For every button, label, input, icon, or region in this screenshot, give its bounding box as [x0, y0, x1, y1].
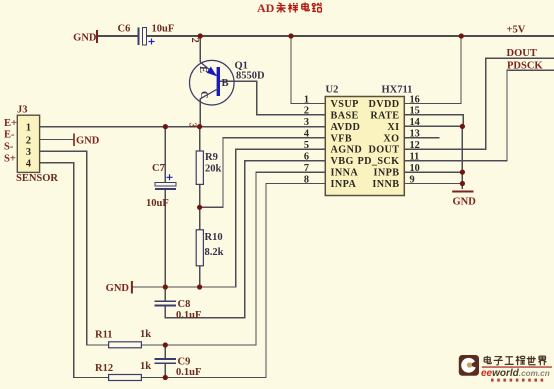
svg-text:S+: S+ [4, 154, 16, 165]
wire INPB (U2 pin10) to GND column [404, 171, 462, 173]
svg-text:3: 3 [26, 147, 31, 158]
capacitor C6 plus sign [149, 39, 155, 45]
logo hanzi 工 [505, 357, 514, 365]
logo hanzi 程 [516, 356, 525, 366]
junction dot GND row / C7 / C8 [163, 284, 168, 289]
title hanzi 路 [312, 3, 322, 12]
svg-text:XI: XI [387, 122, 399, 133]
svg-text:1k: 1k [140, 361, 151, 372]
wire VFB U2 pin4 to R9/R10 node [200, 138, 326, 208]
logo red underline [482, 366, 552, 367]
wire Q1 base to U2 pin2 [220, 81, 325, 115]
svg-text:3: 3 [304, 117, 309, 128]
svg-text:C: C [198, 91, 209, 99]
wire GND row to AGND (U2 pin5) [132, 149, 325, 287]
svg-text:20k: 20k [205, 164, 222, 175]
svg-text:INNB: INNB [372, 179, 399, 190]
wire XO stub (U2 pin13) [404, 137, 439, 139]
svg-text:INPB: INPB [374, 168, 400, 179]
wire R10 top lead [199, 207, 201, 230]
connector J3 body [17, 115, 39, 172]
svg-text:E+: E+ [4, 118, 17, 129]
wire R10 bottom lead [199, 266, 201, 287]
svg-text:2: 2 [189, 38, 200, 43]
junction dot rail/DVDD [459, 33, 464, 38]
svg-text:15: 15 [410, 106, 420, 117]
svg-text:R9: R9 [205, 152, 218, 163]
resistor R12 body [109, 375, 142, 381]
svg-text:INNA: INNA [331, 168, 359, 179]
wire R9 bottom lead [199, 184, 201, 207]
svg-text:E-: E- [4, 130, 15, 141]
title hanzi 电 [302, 3, 310, 11]
transistor Q1 body circle [190, 60, 235, 105]
svg-text:14: 14 [410, 117, 420, 128]
junction dot R12 row / C9 bottom [163, 375, 168, 380]
junction dot E+ row / C7 [163, 124, 168, 129]
svg-text:R12: R12 [95, 363, 113, 374]
logo slogan tiny red marks [491, 379, 543, 382]
junction dot R11 row / C9 top [163, 342, 168, 347]
logo hanzi 世 [527, 356, 536, 365]
transistor Q1 base bar [217, 67, 220, 96]
wire C8 bottom to VBG (U2 pin6) [165, 161, 325, 318]
svg-text:10uF: 10uF [152, 24, 175, 35]
wire R12 row to INPA (U2 pin8) [141, 184, 325, 378]
ground GND bar mid-left [131, 281, 133, 294]
logo eeworld gold dot [467, 362, 472, 367]
svg-text:8: 8 [304, 174, 309, 185]
svg-text:GND: GND [76, 136, 100, 147]
svg-text:1: 1 [26, 122, 31, 133]
svg-text:VFB: VFB [331, 133, 353, 144]
wire C7 top lead [164, 127, 166, 183]
junction dot XI / RATE / GND column [460, 124, 465, 129]
svg-text:HX711: HX711 [382, 85, 413, 96]
logo eeworld white C [461, 358, 476, 373]
svg-text:AVDD: AVDD [331, 122, 361, 133]
svg-text:PD_SCK: PD_SCK [357, 156, 399, 167]
wire J3 pin4 S+ to R12 [40, 163, 109, 378]
title hanzi 采 [277, 3, 286, 13]
svg-text:6: 6 [304, 152, 309, 163]
wire Q1 emitter vertical [199, 36, 201, 62]
wire DOUT net (U2 pin12 to right edge) [404, 58, 554, 149]
svg-text:7: 7 [304, 163, 309, 174]
svg-text:11: 11 [410, 152, 420, 163]
resistor R11 body [109, 342, 142, 348]
svg-text:4: 4 [26, 159, 31, 170]
svg-text:0.1uF: 0.1uF [176, 310, 201, 321]
resistor R9 body [196, 151, 203, 184]
title hanzi 样 [288, 3, 298, 13]
svg-text:9: 9 [410, 174, 415, 185]
junction dot R9/R10/VFB node [197, 205, 202, 210]
wire INNB (U2 pin9) to GND column [404, 183, 462, 185]
svg-text:2: 2 [26, 135, 31, 146]
svg-text:VBG: VBG [331, 156, 354, 167]
logo hanzi 界 [538, 356, 546, 365]
capacitor C8 (0.1uF) [154, 301, 176, 305]
capacitor C9 (0.1uF) [154, 359, 176, 363]
svg-text:1: 1 [304, 94, 309, 105]
junction dot GND row / R10 [197, 284, 202, 289]
wire PD_SCK net (U2 pin11 to right edge) [404, 70, 554, 160]
svg-text:4: 4 [304, 129, 309, 140]
svg-text:RATE: RATE [370, 110, 399, 121]
svg-text:GND: GND [73, 33, 97, 44]
svg-text:10uF: 10uF [146, 198, 169, 209]
transistor Q1 emitter arrowhead [207, 67, 217, 77]
svg-text:C8: C8 [178, 299, 191, 310]
wire GND column right side [461, 126, 463, 189]
svg-text:8.2k: 8.2k [205, 247, 224, 258]
svg-text:DVDD: DVDD [368, 99, 399, 110]
wire C9 top lead [164, 345, 166, 358]
svg-text:12: 12 [410, 140, 420, 151]
wire J3 pin3 S- to R11 [40, 151, 109, 345]
svg-text:J3: J3 [17, 105, 28, 116]
logo hanzi 电 [484, 356, 491, 364]
logo eeworld square [459, 355, 479, 376]
logo hanzi 子 [494, 357, 503, 366]
wire DVDD (U2 pin16) to +5V rail [404, 36, 461, 104]
capacitor C6 (10uF polarized) [139, 28, 147, 46]
svg-text:PDSCK: PDSCK [507, 61, 543, 72]
transistor Q1 emitter diagonal with arrow [200, 62, 216, 76]
capacitor C7 plus sign [167, 174, 173, 180]
svg-text:16: 16 [410, 94, 420, 105]
resistor R10 body [196, 230, 203, 266]
svg-text:AGND: AGND [331, 145, 363, 156]
ground GND bar top-left [96, 30, 98, 43]
svg-text:C7: C7 [152, 163, 165, 174]
junction dot E+ row / collector / R9 [197, 124, 202, 129]
svg-text:R11: R11 [95, 330, 113, 341]
wire RATE (U2 pin15) down to XI net [404, 115, 463, 127]
svg-text:0.1uF: 0.1uF [176, 367, 201, 378]
svg-text:AD: AD [257, 1, 275, 15]
wire C9 bottom lead [164, 364, 166, 378]
junction dot rail/VSUP [288, 33, 293, 38]
label GND bar at J3 pin2 [73, 134, 75, 147]
svg-text:VSUP: VSUP [331, 99, 359, 110]
junction dot INNB / GND column [460, 181, 465, 186]
IC U2 HX711 body [325, 97, 404, 196]
svg-text:DOUT: DOUT [368, 145, 399, 156]
capacitor C7 (10uF polarized) [155, 183, 176, 189]
wire J3 pin2 to GND stub [40, 139, 74, 141]
svg-text:GND: GND [453, 197, 477, 208]
wire +5V rail left segment (GND bar to C6) [97, 35, 138, 37]
svg-text:GND: GND [106, 283, 130, 294]
ground symbol bottom-right bar [452, 191, 473, 193]
svg-text:INPA: INPA [331, 179, 357, 190]
svg-text:SENSOR: SENSOR [16, 173, 58, 184]
svg-text:S-: S- [4, 142, 14, 153]
junction dot rail/C6/Q1 emitter [198, 33, 203, 38]
svg-text:+5V: +5V [507, 25, 526, 36]
svg-text:E: E [197, 66, 208, 73]
svg-text:XO: XO [383, 133, 399, 144]
svg-text:3: 3 [187, 123, 198, 128]
svg-text:5: 5 [304, 140, 309, 151]
svg-text:R10: R10 [205, 232, 223, 243]
svg-text:U2: U2 [326, 85, 339, 96]
wire XI (U2 pin14) to GND column [404, 125, 462, 127]
svg-text:eeworld.com.cn: eeworld.com.cn [481, 368, 550, 379]
svg-text:10: 10 [410, 163, 420, 174]
wire +5V rail (C6 to right edge) [147, 35, 554, 37]
wire R9 top lead [199, 127, 201, 151]
svg-text:1k: 1k [140, 329, 151, 340]
transistor Q1 collector diagonal [200, 89, 218, 99]
wire +5V to VSUP (U2 pin1) [291, 36, 325, 104]
wire R11 row to INNA (U2 pin7) [141, 172, 325, 345]
svg-text:8550D: 8550D [236, 71, 265, 82]
svg-text:C6: C6 [118, 24, 131, 35]
wire E+ row (J3 pin1 to U2 pin3 AVDD) [40, 126, 326, 128]
svg-text:DOUT: DOUT [507, 48, 537, 59]
wire Q1 collector vertical [199, 99, 201, 127]
svg-text:13: 13 [410, 129, 420, 140]
svg-text:2: 2 [304, 106, 309, 117]
wire C8 top lead [164, 287, 166, 301]
junction dot INPB / GND column [460, 170, 465, 175]
svg-text:B: B [222, 78, 229, 89]
svg-text:C9: C9 [178, 357, 191, 368]
svg-text:BASE: BASE [331, 110, 359, 121]
wire C7 bottom lead [164, 190, 166, 288]
